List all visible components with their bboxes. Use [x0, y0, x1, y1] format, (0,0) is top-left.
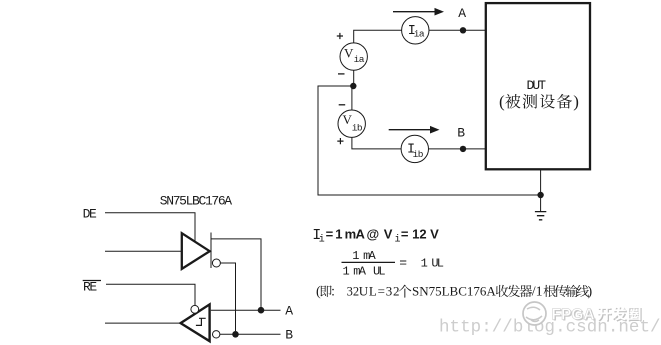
- svg-text:SN75LBC176A: SN75LBC176A: [160, 194, 233, 209]
- svg-text:ia: ia: [354, 54, 365, 65]
- svg-text:1 UL: 1 UL: [421, 257, 444, 271]
- svg-text:1 mA: 1 mA: [352, 249, 376, 263]
- svg-text:(: (: [316, 285, 321, 300]
- svg-text:i: i: [395, 234, 401, 246]
- svg-text:V: V: [344, 45, 354, 60]
- svg-text:A: A: [285, 303, 293, 318]
- svg-text:): ): [588, 285, 593, 300]
- svg-text:32: 32: [347, 285, 360, 299]
- svg-text:UL: UL: [373, 264, 385, 278]
- svg-text:V: V: [384, 227, 393, 242]
- svg-text:B: B: [285, 328, 293, 343]
- svg-text:DUT: DUT: [527, 78, 547, 93]
- svg-text:ib: ib: [352, 123, 363, 134]
- svg-text:=: =: [399, 255, 407, 270]
- svg-text:FPGA: FPGA: [552, 307, 595, 324]
- svg-text:/1: /1: [532, 285, 543, 300]
- svg-text:B: B: [457, 125, 465, 140]
- svg-text:): ): [573, 92, 579, 111]
- svg-text:DE: DE: [83, 207, 97, 222]
- svg-text:RE: RE: [83, 280, 97, 295]
- svg-text:ia: ia: [414, 29, 425, 40]
- svg-text:1 mA: 1 mA: [343, 264, 367, 278]
- svg-text:A: A: [458, 6, 466, 21]
- svg-text:SN75LBC176A: SN75LBC176A: [412, 284, 496, 299]
- svg-text:= 12 V: = 12 V: [401, 227, 439, 242]
- svg-text:ib: ib: [413, 149, 424, 160]
- svg-text:UL=32: UL=32: [359, 284, 400, 299]
- svg-text:(: (: [499, 92, 505, 111]
- svg-text:= 1 mA @: = 1 mA @: [326, 227, 379, 242]
- svg-text:i: i: [319, 234, 325, 246]
- svg-text:http://blog.csdn.net/: http://blog.csdn.net/: [439, 318, 661, 338]
